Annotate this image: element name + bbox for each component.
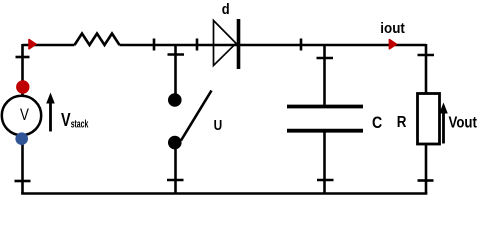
capacitor stub upper	[323, 45, 326, 105]
wire left branch vertical	[21, 44, 24, 194]
current arrow red at input	[29, 40, 36, 49]
wire top-left segment	[23, 44, 75, 47]
resistor zigzag (inductor)	[75, 34, 120, 46]
wire top main segment	[120, 44, 427, 47]
svg-text:Vout: Vout	[449, 114, 478, 131]
tick on top wire 2	[196, 39, 199, 51]
tick on top wire 3	[300, 39, 303, 51]
tick on capacitor stub upper	[317, 57, 334, 60]
wire right branch lower	[425, 144, 428, 194]
voltage source V circle	[2, 96, 41, 135]
capacitor plate bottom	[287, 129, 363, 133]
switch stub lower	[174, 142, 177, 194]
switch upper dot	[168, 93, 182, 107]
svg-text:stack: stack	[71, 118, 89, 130]
svg-text:iout: iout	[380, 20, 405, 37]
tick on right branch lower	[418, 179, 434, 182]
svg-text:C: C	[372, 114, 382, 132]
tick on switch stub upper	[168, 53, 185, 56]
svg-text:R: R	[397, 114, 407, 131]
switch lower dot	[168, 136, 182, 150]
tick on left branch top	[16, 56, 30, 59]
node blue dot (negative terminal)	[15, 132, 28, 145]
svg-text:d: d	[222, 1, 230, 18]
diode d triangle	[214, 21, 237, 66]
switch stub upper	[174, 45, 177, 96]
tick on top wire 1	[153, 39, 156, 51]
svg-text:V: V	[20, 105, 29, 124]
Vstack arrow	[49, 102, 52, 132]
Vout arrow	[442, 112, 445, 144]
svg-text:V: V	[61, 109, 71, 130]
diode cathode bar	[237, 19, 241, 69]
svg-text:U: U	[214, 118, 223, 134]
node red dot (positive terminal)	[16, 80, 29, 93]
capacitor stub lower	[323, 133, 326, 195]
switch blade	[181, 91, 212, 141]
wire bottom rail	[21, 192, 427, 195]
capacitor plate top	[287, 105, 363, 109]
current arrow red at output	[389, 40, 396, 49]
tick on left branch bottom	[15, 180, 31, 183]
resistor R rectangle	[418, 94, 440, 145]
tick on switch stub lower	[167, 179, 184, 182]
tick on right branch upper	[418, 54, 435, 57]
wire right branch upper	[425, 44, 428, 93]
tick on capacitor stub lower	[317, 179, 334, 182]
